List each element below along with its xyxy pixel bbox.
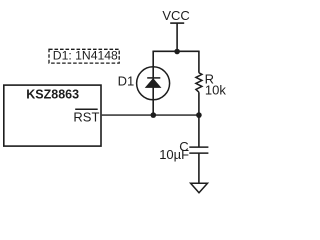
pin RST label with overline xyxy=(73,109,99,124)
svg-text:VCC: VCC xyxy=(162,8,189,23)
wire RST pin to node xyxy=(102,114,199,116)
wire top rail xyxy=(152,50,199,52)
ground symbol xyxy=(191,183,208,193)
svg-text:D1: 1N4148: D1: 1N4148 xyxy=(53,48,118,62)
wire node to capacitor xyxy=(198,115,200,147)
wire diode branch xyxy=(152,51,154,115)
wire VCC down to top rail xyxy=(176,23,178,51)
diode D1 cathode bar xyxy=(147,77,160,79)
wire capacitor to ground xyxy=(198,153,200,183)
capacitor C top plate xyxy=(189,146,208,148)
svg-text:RST: RST xyxy=(73,109,99,124)
diode D1 triangle xyxy=(146,79,161,88)
svg-text:KSZ8863: KSZ8863 xyxy=(26,87,79,101)
resistor R zigzag xyxy=(196,73,202,92)
svg-text:10µF: 10µF xyxy=(159,147,189,162)
junction node resistor/cap xyxy=(196,112,202,118)
svg-text:D1: D1 xyxy=(118,73,135,88)
wire resistor bottom to node xyxy=(198,92,200,115)
junction node diode/RST wire xyxy=(151,112,157,118)
VCC power symbol bar xyxy=(170,22,184,24)
diode D1 circle xyxy=(137,67,170,100)
capacitor C bottom plate xyxy=(189,152,208,154)
junction node VCC/rail xyxy=(174,49,180,55)
IC U1 KSZ8863 box xyxy=(4,85,101,146)
svg-text:10k: 10k xyxy=(205,83,226,98)
wire resistor branch top xyxy=(198,51,200,73)
callout dashed box D1: 1N4148 xyxy=(49,48,119,63)
